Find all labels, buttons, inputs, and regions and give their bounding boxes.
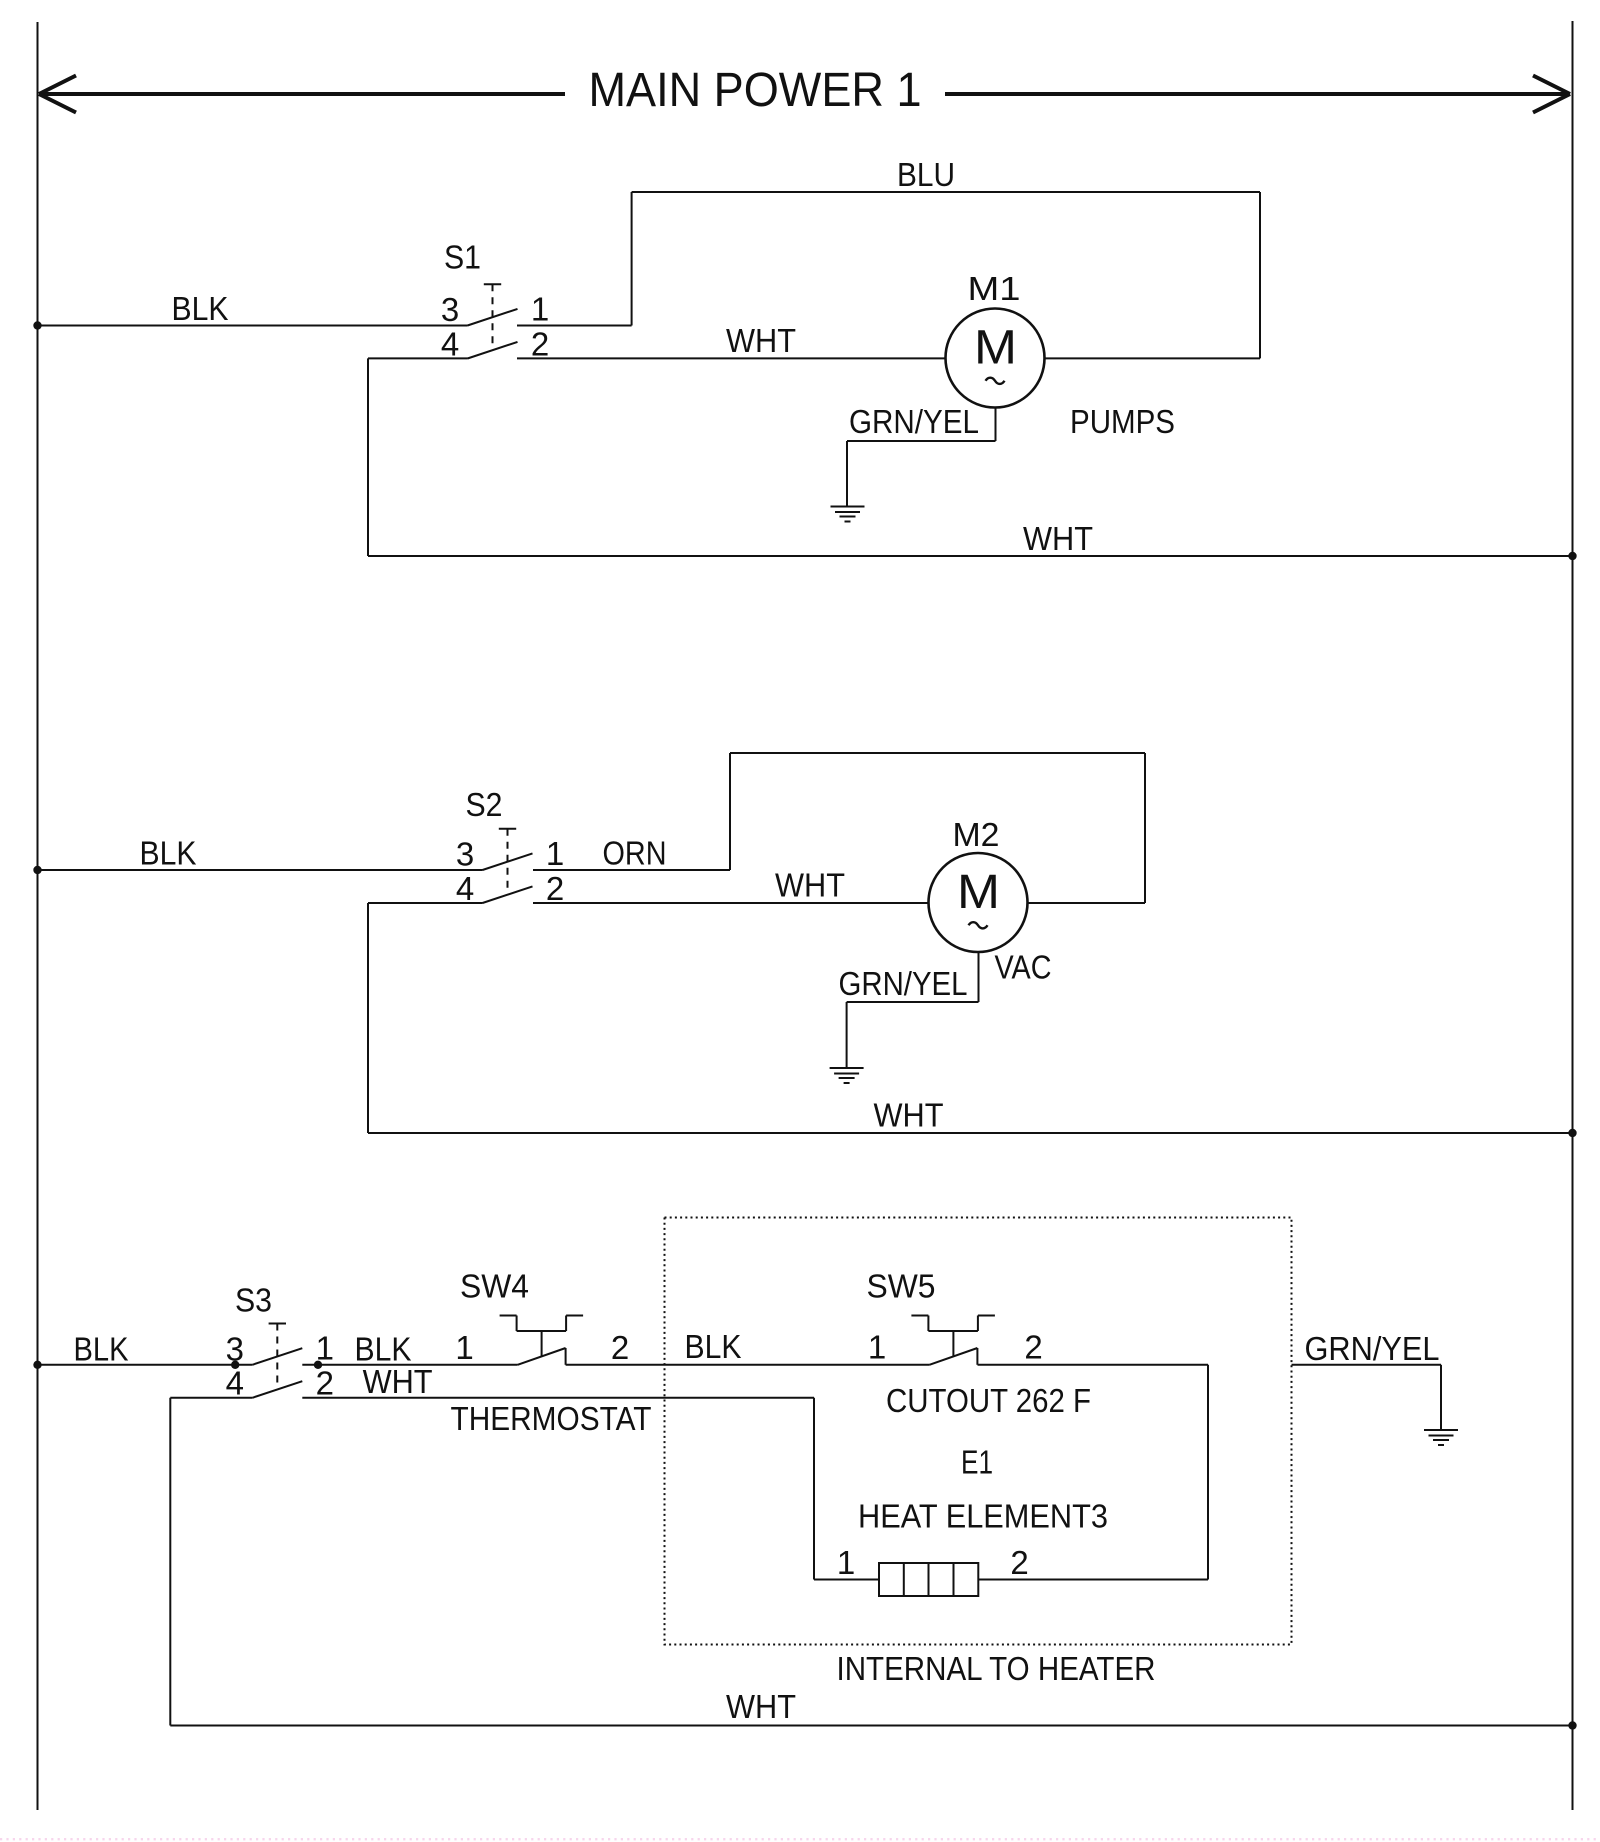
switch SW5 contact blade bbox=[929, 1348, 977, 1365]
wire M2 right terminal bbox=[1027, 902, 1145, 904]
wire M1 right terminal bbox=[1045, 357, 1261, 359]
wire from SW5 pin 2 to heat element pin 2 bbox=[978, 1364, 1209, 1366]
switch S3 pole A blade (pins 3-1) bbox=[252, 1348, 302, 1365]
wire WHT from S2 pin 2 to M2 left terminal bbox=[533, 902, 929, 904]
svg-text:MAIN POWER 1: MAIN POWER 1 bbox=[589, 64, 922, 117]
wire heater internal down-leg to element pin 1 bbox=[813, 1398, 815, 1580]
motor M2 body bbox=[929, 853, 1028, 952]
svg-text:2: 2 bbox=[1024, 1329, 1042, 1366]
switch S3 mechanical link bbox=[269, 1323, 286, 1325]
wire WHT from S3 pin 2 into heater bbox=[302, 1397, 814, 1399]
left power rail L1 bbox=[37, 22, 39, 1810]
svg-text:2: 2 bbox=[531, 325, 549, 362]
svg-text:WHT: WHT bbox=[726, 1688, 796, 1725]
switch S1 pole B blade (pins 4-2) bbox=[468, 342, 518, 359]
wire GRN/YEL from heater to ground bbox=[1292, 1364, 1442, 1366]
junction on L1 for vac circuit bbox=[33, 866, 41, 874]
wire drop to M2 bbox=[1144, 753, 1146, 903]
MAIN POWER 1 span arrow, right half bbox=[945, 92, 1570, 96]
switch SW5 actuator stem bbox=[952, 1331, 954, 1357]
switch S2 pole B blade (pins 4-2) bbox=[483, 886, 533, 903]
svg-text:THERMOSTAT: THERMOSTAT bbox=[451, 1400, 652, 1437]
wire ORN riser bbox=[729, 753, 731, 870]
faint scan artifact line at bottom bbox=[0, 1838, 1600, 1840]
wire from S2 pin 4 down to WHT return bbox=[368, 902, 483, 904]
svg-text:2: 2 bbox=[546, 870, 564, 907]
junction on L1 for heater circuit bbox=[33, 1361, 41, 1369]
junction on L2 for pump circuit return bbox=[1568, 552, 1576, 560]
svg-text:2: 2 bbox=[316, 1365, 334, 1402]
svg-text:3: 3 bbox=[441, 291, 459, 328]
switch SW4 breaker hooks and crossbar bbox=[500, 1315, 517, 1317]
svg-text:INTERNAL TO HEATER: INTERNAL TO HEATER bbox=[837, 1650, 1156, 1687]
svg-text:4: 4 bbox=[441, 325, 459, 362]
svg-text:SW5: SW5 bbox=[867, 1268, 936, 1305]
wire from S3 pin 4 down to WHT return bbox=[170, 1397, 252, 1399]
svg-text:3: 3 bbox=[456, 836, 474, 873]
svg-text:1: 1 bbox=[455, 1329, 473, 1366]
right power rail L2 bbox=[1572, 21, 1574, 1810]
svg-text:BLU: BLU bbox=[897, 156, 955, 193]
wire BLK from L1 to S1 pin 3 bbox=[38, 325, 468, 327]
wire M1 ground lead GRN/YEL bbox=[995, 408, 997, 442]
wire BLU riser bbox=[631, 192, 633, 326]
svg-text:M2: M2 bbox=[953, 816, 1000, 853]
switch S1 mechanical link bbox=[484, 283, 501, 285]
ground symbol for M1 bbox=[831, 506, 865, 508]
svg-text:SW4: SW4 bbox=[460, 1268, 529, 1305]
svg-text:S2: S2 bbox=[466, 786, 503, 823]
svg-text:S3: S3 bbox=[235, 1281, 272, 1318]
svg-text:1: 1 bbox=[531, 290, 549, 327]
wire BLK from SW4 to SW5 bbox=[566, 1364, 930, 1366]
switch SW4 actuator stem bbox=[541, 1331, 543, 1357]
svg-text:E1: E1 bbox=[961, 1444, 993, 1481]
svg-text:WHT: WHT bbox=[726, 322, 796, 359]
wire WHT return run to L2 bbox=[368, 1132, 1573, 1134]
svg-text:M1: M1 bbox=[968, 270, 1021, 307]
junction at S3 pin 1 bbox=[314, 1361, 322, 1369]
svg-text:2: 2 bbox=[1010, 1544, 1028, 1581]
svg-text:PUMPS: PUMPS bbox=[1070, 403, 1175, 440]
heat element E1 body bbox=[879, 1563, 978, 1596]
svg-text:BLK: BLK bbox=[140, 835, 197, 872]
wire from S1 pin 1 to BLU riser bbox=[517, 325, 632, 327]
motor M2 AC tilde bbox=[969, 922, 988, 928]
svg-text:HEAT ELEMENT3: HEAT ELEMENT3 bbox=[858, 1498, 1108, 1535]
svg-text:VAC: VAC bbox=[995, 949, 1052, 986]
motor M1 body bbox=[946, 309, 1045, 408]
wire ORN from S2 pin 1 to riser bbox=[533, 869, 730, 871]
motor M1 AC tilde bbox=[986, 378, 1005, 384]
wire WHT return run to L2 bbox=[170, 1725, 1572, 1727]
switch S2 pole A blade (pins 3-1) bbox=[483, 853, 533, 870]
wire from S1 pin 4 down to WHT return bbox=[368, 357, 468, 359]
dashed enclosure INTERNAL TO HEATER bbox=[665, 1218, 1292, 1645]
svg-text:4: 4 bbox=[226, 1365, 244, 1402]
svg-text:4: 4 bbox=[456, 870, 474, 907]
svg-text:1: 1 bbox=[546, 835, 564, 872]
svg-text:BLK: BLK bbox=[74, 1331, 129, 1368]
switch SW5 breaker hooks and crossbar bbox=[911, 1315, 928, 1317]
switch S1 pole A blade (pins 3-1) bbox=[468, 309, 518, 326]
wire WHT from S1 pin 2 to M1 left terminal bbox=[517, 357, 946, 359]
svg-text:M: M bbox=[957, 866, 1000, 919]
svg-text:WHT: WHT bbox=[363, 1363, 433, 1400]
svg-text:WHT: WHT bbox=[874, 1097, 944, 1134]
junction on L2 for vac circuit return bbox=[1568, 1129, 1576, 1137]
svg-text:BLK: BLK bbox=[685, 1328, 742, 1365]
wire WHT return run to L2 bbox=[368, 555, 1573, 557]
svg-text:S1: S1 bbox=[444, 239, 481, 276]
ground symbol for M2 bbox=[830, 1067, 864, 1069]
svg-text:1: 1 bbox=[868, 1329, 886, 1366]
wire ORN top run bbox=[730, 752, 1145, 754]
wire M2 ground lead GRN/YEL bbox=[978, 952, 980, 1002]
svg-text:BLK: BLK bbox=[172, 290, 229, 327]
wire BLK from L1 to S2 pin 3 bbox=[38, 869, 483, 871]
switch S3 pole B blade (pins 4-2) bbox=[252, 1381, 302, 1398]
MAIN POWER 1 span arrow, left half bbox=[39, 92, 565, 96]
svg-text:1: 1 bbox=[837, 1544, 855, 1581]
ground symbol for heater earth bbox=[1424, 1429, 1458, 1431]
junction on L2 for heater return bbox=[1568, 1721, 1576, 1729]
wire BLU drop to M1 bbox=[1259, 192, 1261, 358]
svg-text:GRN/YEL: GRN/YEL bbox=[1305, 1330, 1440, 1367]
svg-text:2: 2 bbox=[611, 1329, 629, 1366]
switch S2 mechanical link bbox=[499, 828, 516, 830]
junction at S3 pin 3 contact bbox=[231, 1361, 239, 1369]
svg-text:M: M bbox=[974, 322, 1017, 375]
wire BLK from L1 to S3 pin 3 bbox=[38, 1364, 253, 1366]
switch SW4 contact blade bbox=[518, 1348, 566, 1365]
svg-text:GRN/YEL: GRN/YEL bbox=[849, 403, 979, 440]
junction on L1 for pump circuit bbox=[33, 321, 41, 329]
svg-text:GRN/YEL: GRN/YEL bbox=[839, 965, 968, 1002]
svg-text:WHT: WHT bbox=[1023, 520, 1093, 557]
wire BLK from S3 pin 1 to SW4 bbox=[302, 1364, 517, 1366]
svg-text:ORN: ORN bbox=[603, 835, 667, 872]
wire BLU top run bbox=[632, 191, 1260, 193]
svg-text:CUTOUT 262 F: CUTOUT 262 F bbox=[886, 1382, 1091, 1419]
svg-text:WHT: WHT bbox=[775, 867, 845, 904]
